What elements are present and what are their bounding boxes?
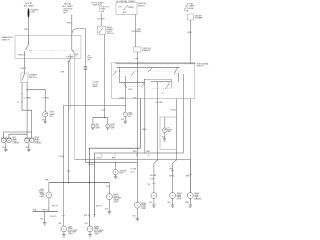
ground rt rear marker <box>189 198 191 204</box>
svg-text:RIGHT: RIGHT <box>141 203 146 205</box>
svg-text:C 100: C 100 <box>100 110 105 112</box>
dimmer switch box <box>21 73 28 82</box>
svg-text:SWITCH: SWITCH <box>197 66 205 68</box>
rear stop lamp <box>135 202 141 208</box>
svg-text:FLASHER: FLASHER <box>142 49 151 52</box>
label HIGH BEAM IND <box>50 112 55 118</box>
svg-text:FRONT: FRONT <box>39 191 45 193</box>
label right courtesy <box>110 124 115 130</box>
node HOT AT ALL TIMES (gauges fuse) <box>185 2 195 7</box>
label LEFT REAR <box>68 226 78 235</box>
svg-text:LIGHT: LIGHT <box>177 199 182 201</box>
right headlamp outer filament <box>25 138 30 143</box>
wire low beam output with jog <box>22 82 32 138</box>
svg-text:IND: IND <box>128 116 132 118</box>
contact dots on B+ input <box>27 37 30 40</box>
ground license <box>115 175 117 176</box>
svg-text:LIGHT: LIGHT <box>95 128 100 130</box>
label TURN SIGNAL SWITCH <box>197 62 209 67</box>
TS contact drop 1 <box>119 67 121 82</box>
label LEFT HEADLIGHT <box>12 137 19 144</box>
svg-text:LIGHT: LIGHT <box>119 173 124 175</box>
label IGNITION SWITCH <box>138 3 147 7</box>
TS sub blade mid <box>142 83 145 87</box>
svg-text:LT BLU: LT BLU <box>58 156 64 158</box>
routing line B <box>95 153 184 217</box>
TS sub blade right <box>166 83 170 89</box>
left headlamp inner filament <box>7 138 12 143</box>
svg-text:CTSY: CTSY <box>95 126 100 128</box>
wire rtind ground <box>164 133 166 139</box>
door jamb switch box <box>98 26 106 34</box>
ground left front <box>43 223 47 225</box>
TS dashed contact row <box>113 70 187 72</box>
wire STOP contact output <box>74 53 76 159</box>
svg-text:LT BLU: LT BLU <box>20 68 27 70</box>
wire BRN output <box>189 99 191 193</box>
wire ORG fuse into headlight switch <box>71 15 73 50</box>
svg-text:LIGHT: LIGHT <box>68 234 73 236</box>
headlight switch contact labels <box>18 51 79 59</box>
right turn indicator lamp <box>163 128 168 133</box>
TS bus 1 <box>115 63 195 65</box>
connector tick low beam wire <box>21 92 23 94</box>
svg-text:BLK: BLK <box>105 209 109 211</box>
svg-text:BLK: BLK <box>3 147 7 149</box>
svg-text:DK BLU: DK BLU <box>88 164 95 166</box>
svg-text:TURN: TURN <box>40 194 45 196</box>
ground left courtesy <box>92 128 94 130</box>
TS blade 1 <box>113 71 117 76</box>
svg-text:BLK: BLK <box>149 202 153 204</box>
wire RED fusible link to headlight switch <box>28 18 30 36</box>
TS bus 2 <box>116 66 180 68</box>
wire right headlamp ground <box>28 143 30 150</box>
label RIGHT REAR PARK <box>177 193 182 200</box>
label PNK <box>131 29 141 33</box>
TS sub bar 2 <box>151 81 172 83</box>
svg-text:DK GRN: DK GRN <box>97 19 105 21</box>
headlight switch dashed contact row <box>29 49 79 51</box>
svg-text:PNC: PNC <box>170 169 174 171</box>
svg-text:LIGHT: LIGHT <box>110 128 115 130</box>
label fusible link <box>31 9 40 13</box>
svg-text:LIGHT: LIGHT <box>34 141 39 143</box>
connector tick on DK GRN upper <box>67 61 70 63</box>
svg-text:TURN: TURN <box>168 129 173 131</box>
svg-text:STOP: STOP <box>141 206 145 208</box>
label rt rear marker <box>194 193 202 200</box>
ground left rear <box>63 232 65 235</box>
svg-text:RF: RF <box>148 184 150 186</box>
right rear lamp center <box>87 226 93 232</box>
svg-text:RED: RED <box>24 29 29 31</box>
svg-text:CTSY: CTSY <box>110 126 115 128</box>
svg-text:LT BLU: LT BLU <box>97 157 103 159</box>
right headlamp inner filament <box>30 138 35 143</box>
label RIGHT TURN IND <box>168 128 173 134</box>
wire right front park feed <box>108 183 110 194</box>
svg-text:LT: LT <box>30 51 33 53</box>
instrument cluster box <box>160 117 176 150</box>
svg-text:BLK: BLK <box>133 216 137 218</box>
fusible link F1 <box>28 8 30 18</box>
rear side marker lamp <box>151 193 157 199</box>
svg-text:RIGHT: RIGHT <box>113 194 118 196</box>
svg-text:ALL TIMES: ALL TIMES <box>62 5 73 8</box>
wire to high beam indicator <box>27 90 45 112</box>
svg-text:LEFT: LEFT <box>12 137 16 139</box>
svg-text:BLK: BLK <box>121 119 125 121</box>
label GAUGES FLASHER <box>195 14 204 19</box>
TS sub row bar <box>120 80 145 83</box>
svg-text:SWITCH: SWITCH <box>29 77 37 79</box>
left rear lamp <box>61 226 67 232</box>
svg-text:BLK: BLK <box>59 223 63 225</box>
svg-text:LT GRN: LT GRN <box>24 98 32 100</box>
ground right front <box>108 211 112 213</box>
headlight switch blade ORG <box>72 50 75 54</box>
junction dots park bus <box>68 182 69 183</box>
svg-text:TURN: TURN <box>128 114 133 116</box>
svg-text:ALL TIMES: ALL TIMES <box>24 5 35 8</box>
svg-text:SWITCH: SWITCH <box>2 39 10 41</box>
wire indicator ground <box>44 117 46 121</box>
svg-text:WHT: WHT <box>129 89 134 91</box>
svg-text:LIGHT: LIGHT <box>94 234 99 236</box>
wire DK GRN parking output with kink <box>68 54 70 183</box>
connector tick marker <box>152 182 155 184</box>
ignition switch blade <box>124 6 128 10</box>
wire BRN hazard feed <box>189 20 191 64</box>
label HEADLIGHT SWITCH <box>2 36 14 41</box>
wire PPL output <box>136 76 138 162</box>
svg-text:FLASHER: FLASHER <box>195 17 204 20</box>
svg-text:C210: C210 <box>131 171 135 173</box>
wire right courtesy drop <box>107 117 109 124</box>
svg-text:RT: RT <box>168 128 170 130</box>
svg-text:C1: C1 <box>17 102 19 104</box>
svg-text:LT GRN: LT GRN <box>131 169 138 171</box>
wire left ind feed horizontal <box>63 105 125 107</box>
svg-text:LEFT: LEFT <box>68 226 72 228</box>
left front park/turn lamp <box>46 192 52 198</box>
wire TAIL output (left turn rear feed) <box>62 106 64 226</box>
wire right indicator riser <box>173 99 177 193</box>
wire left courtesy drop <box>92 117 94 124</box>
junction dot dimmer <box>27 89 28 90</box>
svg-text:SWITCH: SWITCH <box>107 33 114 35</box>
left courtesy lamp <box>91 124 95 128</box>
wire stub right of DK GRN <box>69 62 71 110</box>
TS blade 3 <box>149 67 153 71</box>
label at bypass connector <box>87 56 93 62</box>
left headlamp connector bar <box>1 137 12 139</box>
svg-text:FRONT: FRONT <box>113 196 119 198</box>
wire WHT output <box>144 83 146 153</box>
svg-text:LIGHT: LIGHT <box>39 196 44 198</box>
svg-text:START: START <box>128 6 133 9</box>
wire license drop <box>115 162 117 169</box>
turn signal switch box <box>112 62 195 98</box>
svg-text:LIGHT: LIGHT <box>141 208 146 210</box>
ground left turn ind <box>124 121 128 123</box>
connector tick light wire <box>93 214 96 216</box>
label AUDIO ALARM DOOR SWITCH <box>107 26 114 35</box>
svg-text:LPS: LPS <box>87 56 90 58</box>
wire to left front park lamp <box>48 183 50 192</box>
ground center rear <box>136 208 138 218</box>
node HOT IN START AND RUN <box>91 1 104 6</box>
svg-text:LT BLU: LT BLU <box>119 97 126 99</box>
TS sub dashed row <box>124 86 144 88</box>
fuse list bullets <box>101 6 110 12</box>
headlight switch box <box>15 36 81 59</box>
svg-text:ORG: ORG <box>67 22 72 24</box>
routing line D license feed <box>85 161 137 163</box>
wire high beam output <box>26 82 28 134</box>
node HOT AT ALL TIMES (left feed) <box>24 2 35 7</box>
svg-text:BRN: BRN <box>186 175 190 177</box>
svg-text:WHT: WHT <box>142 129 147 131</box>
headlight switch contact B+ <box>25 36 28 50</box>
ground right courtesy <box>107 128 109 130</box>
svg-text:IND: IND <box>50 116 54 118</box>
TS sub dashed row 2 <box>152 87 171 89</box>
ignition switch interior labels <box>118 6 133 14</box>
svg-text:BRN: BRN <box>188 32 192 34</box>
headlamp bus upper <box>4 132 32 138</box>
svg-text:PPL: PPL <box>133 98 136 100</box>
svg-text:LO: LO <box>75 56 78 58</box>
svg-text:RIGHT: RIGHT <box>94 226 99 228</box>
svg-text:BLK: BLK <box>168 202 172 204</box>
wire into cluster <box>164 117 166 128</box>
svg-text:TO RR: TO RR <box>87 58 93 60</box>
wire right corner riser <box>182 75 184 153</box>
svg-text:SIDE: SIDE <box>194 197 198 199</box>
door jamb switch blade <box>99 28 103 33</box>
TS sub blade left <box>124 84 127 88</box>
svg-text:BLK: BLK <box>26 147 30 149</box>
wire LT BLU to dimmer <box>24 51 26 73</box>
connector C100 tick <box>21 101 23 103</box>
svg-text:RFS TO: RFS TO <box>84 215 91 217</box>
label LEFT FRONT PARK <box>39 189 45 198</box>
svg-text:LOW BM: LOW BM <box>12 143 19 145</box>
labels at connector <box>33 209 49 212</box>
wire ltind ground <box>124 117 126 121</box>
svg-text:RFS TO: RFS TO <box>51 216 58 218</box>
routing line A <box>89 99 140 227</box>
svg-text:ALL TIMES: ALL TIMES <box>185 5 195 8</box>
wire connector to ground <box>44 211 46 222</box>
svg-text:TR PNL: TR PNL <box>169 176 175 178</box>
label LT GRN door jamb <box>93 82 100 88</box>
svg-text:BLK: BLK <box>40 219 44 221</box>
wire ORG bypass tap <box>72 29 86 163</box>
TS blade 2 <box>131 71 135 76</box>
wire courtesy feed upper <box>100 13 102 26</box>
wire PPL flasher to TS switch <box>136 52 138 76</box>
dimmer switch blade <box>22 73 25 80</box>
park bus <box>49 182 110 184</box>
ground right rear center <box>89 232 91 235</box>
label DIMMER SWITCH <box>29 74 38 78</box>
wire PNK ignition to flasher <box>135 15 137 47</box>
svg-text:LINK: LINK <box>31 12 36 14</box>
svg-text:RIGHT: RIGHT <box>194 193 199 195</box>
svg-text:BLK: BLK <box>85 223 89 225</box>
svg-text:SWITCH: SWITCH <box>138 5 146 7</box>
ground high beam ind <box>44 121 47 123</box>
TS contact drop right <box>178 74 180 83</box>
right front park/turn lamp <box>107 194 113 200</box>
svg-text:CLIP (BRN): CLIP (BRN) <box>131 31 141 33</box>
wire rf ground <box>108 200 110 212</box>
svg-text:STOP/TURN: STOP/TURN <box>94 230 104 232</box>
routing line C stop circuit <box>75 159 191 192</box>
svg-text:DK GRN: DK GRN <box>67 56 75 58</box>
junction dot license <box>115 162 116 163</box>
connector tick right ind riser <box>171 170 174 172</box>
svg-text:PPL: PPL <box>106 186 109 188</box>
wire LT BLU output left turn <box>125 76 127 112</box>
svg-text:DK GRN: DK GRN <box>156 102 164 104</box>
svg-text:BPS TO: BPS TO <box>52 205 59 207</box>
svg-text:LO: LO <box>162 92 165 94</box>
svg-text:LPS: LPS <box>118 7 122 9</box>
svg-text:DK BLU: DK BLU <box>171 110 178 112</box>
svg-text:PPL: PPL <box>135 58 138 60</box>
headlamp bus lower <box>9 134 27 138</box>
left turn indicator lamp <box>123 112 127 116</box>
svg-text:LEFT: LEFT <box>95 124 99 126</box>
label LEFT TURN IND <box>128 112 133 118</box>
svg-text:IND: IND <box>168 131 172 133</box>
license light lamp <box>113 170 118 175</box>
left headlamp outer filament <box>1 138 6 143</box>
svg-text:PNK: PNK <box>45 179 49 181</box>
connector bar <box>33 210 58 212</box>
ground side marker <box>153 199 155 205</box>
svg-text:C157: C157 <box>150 178 154 180</box>
connector tick RFS lamp1 <box>62 215 65 217</box>
wire DK GRN output with jog <box>154 82 158 193</box>
label RIGHT REAR center <box>94 226 104 235</box>
svg-text:RIGHT: RIGHT <box>177 193 182 195</box>
wire rear stop drop <box>136 162 138 202</box>
turn signal flasher box <box>134 47 141 52</box>
right rear side marker lamp <box>187 193 193 199</box>
courtesy tee bar <box>93 116 108 118</box>
svg-text:RIGHT: RIGHT <box>110 124 115 126</box>
svg-text:BLK: BLK <box>162 136 166 138</box>
right rear park lamp <box>170 193 176 199</box>
svg-text:STOP/TURN: STOP/TURN <box>68 230 78 232</box>
svg-text:BRN: BRN <box>61 72 65 74</box>
label right rear stop <box>141 203 146 210</box>
label LICENSE LIGHT <box>119 171 127 175</box>
label RIGHT FRONT PARK <box>113 194 122 203</box>
high beam indicator lamp <box>43 112 48 117</box>
label left courtesy <box>95 124 100 130</box>
svg-text:BPS TO: BPS TO <box>42 210 49 212</box>
label RIGHT HEADLIGHT <box>34 137 41 144</box>
connector tick BRN <box>189 174 192 176</box>
svg-text:BLK: BLK <box>63 13 67 15</box>
wire left headlamp ground <box>5 143 7 150</box>
svg-text:BPS TO: BPS TO <box>96 205 103 207</box>
TS sub link <box>145 80 172 89</box>
svg-text:ACC: ACC <box>123 11 127 14</box>
svg-text:LEFT: LEFT <box>40 189 44 191</box>
svg-text:LPS: LPS <box>87 60 90 62</box>
svg-text:BLK: BLK <box>42 119 46 121</box>
svg-text:DK GRN: DK GRN <box>150 175 157 177</box>
ground right headlamp <box>27 149 31 151</box>
ignition switch box <box>116 3 137 15</box>
wire courtesy feed lower <box>103 35 105 118</box>
connector on bypass wire <box>84 67 87 70</box>
svg-text:LEFT: LEFT <box>128 112 132 114</box>
connector labels right ind riser <box>169 169 175 178</box>
right headlamp connector bar <box>25 137 34 139</box>
ground right rear park <box>172 198 174 204</box>
TS contact dot mid <box>136 70 139 73</box>
hazard flasher box <box>187 14 193 20</box>
node HOT AT ALL TIMES (tail fuse) <box>62 2 73 7</box>
svg-text:BRN: BRN <box>112 157 116 159</box>
svg-text:BRN: BRN <box>185 202 189 204</box>
svg-text:LIGHT: LIGHT <box>113 201 118 203</box>
svg-text:LOW BM: LOW BM <box>34 143 41 145</box>
connector tick on DK GRN lower <box>67 170 70 172</box>
output labels below TS box <box>119 97 163 104</box>
ground left headlamp <box>4 149 8 151</box>
ground right turn ind <box>163 139 166 141</box>
right courtesy lamp <box>106 124 110 128</box>
label TURN SIGNAL FLASHER <box>142 48 151 52</box>
svg-text:LIGHT: LIGHT <box>12 141 17 143</box>
TS blade 4 <box>174 67 178 74</box>
junction dot right ind feed <box>176 117 177 118</box>
wire lamp to connector <box>48 198 50 212</box>
stubs with labels on line B <box>101 153 148 157</box>
svg-text:RIGHT: RIGHT <box>34 137 39 139</box>
